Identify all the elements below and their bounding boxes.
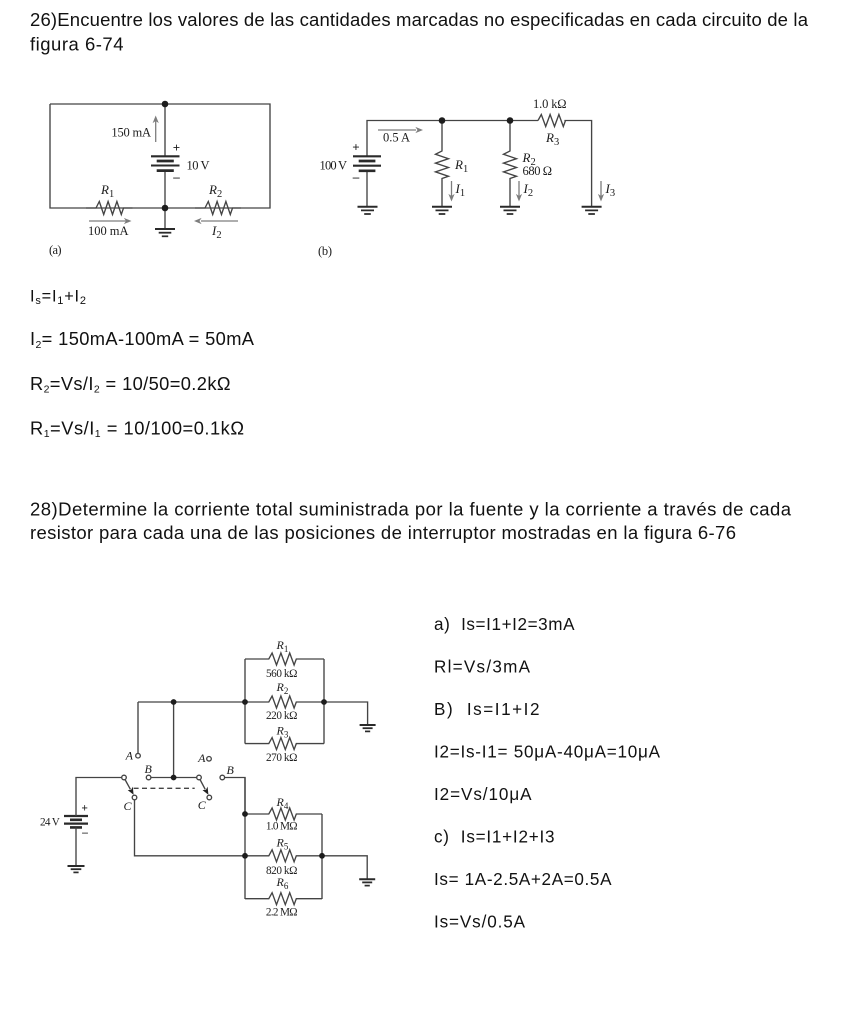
- svg-text:R1: R1: [100, 182, 114, 200]
- svg-text:2.2 MΩ: 2.2 MΩ: [266, 906, 298, 918]
- svg-text:R4: R4: [276, 795, 289, 811]
- svg-text:I2: I2: [211, 223, 222, 241]
- svg-text:c) Is=I1+I2+I3: c) Is=I1+I2+I3: [434, 828, 555, 847]
- svg-text:R3: R3: [545, 130, 559, 148]
- svg-text:R2: R2: [208, 182, 222, 200]
- svg-text:–: –: [172, 169, 180, 184]
- svg-text:+: +: [173, 140, 180, 155]
- svg-text:I2= 150mA-100mA = 50mA: I2= 150mA-100mA = 50mA: [30, 328, 255, 351]
- svg-text:680 Ω: 680 Ω: [523, 164, 553, 178]
- svg-text:Is=Vs/0.5A: Is=Vs/0.5A: [434, 913, 526, 932]
- svg-text:R3: R3: [276, 723, 289, 739]
- svg-text:100 V: 100 V: [320, 159, 348, 173]
- svg-text:1.0 kΩ: 1.0 kΩ: [533, 97, 567, 111]
- svg-text:R1: R1: [276, 638, 289, 654]
- svg-text:–: –: [81, 827, 88, 839]
- svg-text:+: +: [81, 803, 88, 815]
- svg-text:I3: I3: [605, 181, 616, 199]
- svg-text:(a): (a): [49, 243, 62, 257]
- svg-text:B: B: [227, 763, 235, 777]
- svg-text:figura 6-74: figura 6-74: [30, 33, 124, 54]
- svg-text:R5: R5: [276, 836, 289, 852]
- svg-text:Is= 1A-2.5A+2A=0.5A: Is= 1A-2.5A+2A=0.5A: [434, 870, 612, 889]
- svg-text:270 kΩ: 270 kΩ: [266, 752, 297, 764]
- svg-text:+: +: [352, 139, 359, 154]
- svg-text:C: C: [198, 798, 207, 812]
- svg-text:I2=Is-I1= 50μA-40μA=10μA: I2=Is-I1= 50μA-40μA=10μA: [434, 743, 661, 762]
- svg-text:–: –: [352, 169, 360, 184]
- svg-text:I2: I2: [523, 181, 534, 199]
- svg-text:B: B: [145, 762, 153, 776]
- svg-text:R2: R2: [276, 680, 289, 696]
- svg-text:220 kΩ: 220 kΩ: [266, 710, 297, 722]
- svg-text:A: A: [197, 751, 206, 765]
- svg-text:I2=Vs/10μA: I2=Vs/10μA: [434, 785, 532, 804]
- svg-text:Rl=Vs/3mA: Rl=Vs/3mA: [434, 658, 531, 677]
- svg-text:resistor para cada una de las: resistor para cada una de las posiciones…: [30, 522, 736, 543]
- svg-text:(b): (b): [318, 244, 332, 258]
- svg-text:24 V: 24 V: [40, 817, 60, 829]
- svg-text:10 V: 10 V: [187, 159, 210, 173]
- svg-text:R6: R6: [276, 875, 289, 891]
- svg-text:R2=Vs/I2 = 10/50=0.2kΩ: R2=Vs/I2 = 10/50=0.2kΩ: [30, 373, 231, 396]
- svg-text:560 kΩ: 560 kΩ: [266, 668, 297, 680]
- svg-text:100 mA: 100 mA: [88, 224, 129, 238]
- svg-text:a) Is=I1+I2=3mA: a) Is=I1+I2=3mA: [434, 615, 575, 634]
- svg-text:A: A: [125, 749, 134, 763]
- svg-text:C: C: [124, 799, 133, 813]
- svg-text:28)Determine la corriente tota: 28)Determine la corriente total suminist…: [30, 499, 792, 520]
- svg-text:Is=I1+I2: Is=I1+I2: [30, 287, 86, 307]
- svg-text:0.5 A: 0.5 A: [383, 131, 410, 145]
- svg-text:I1: I1: [455, 181, 466, 199]
- svg-text:1.0 MΩ: 1.0 MΩ: [266, 821, 298, 833]
- svg-text:B) Is=I1+I2: B) Is=I1+I2: [434, 700, 540, 719]
- svg-text:R1=Vs/I1 = 10/100=0.1kΩ: R1=Vs/I1 = 10/100=0.1kΩ: [30, 417, 244, 440]
- svg-text:26)Encuentre los valores de la: 26)Encuentre los valores de las cantidad…: [30, 9, 809, 30]
- svg-text:R1: R1: [454, 157, 468, 175]
- svg-text:150 mA: 150 mA: [111, 126, 151, 140]
